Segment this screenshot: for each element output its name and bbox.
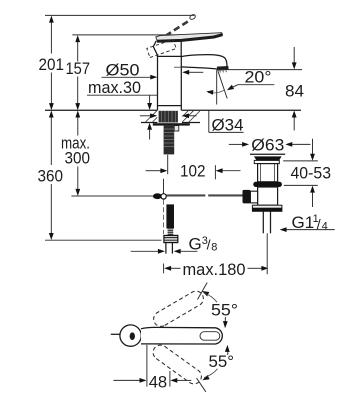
svg-text:G1: G1 [292, 213, 315, 232]
seal ring [253, 182, 282, 187]
stabiliser tab [174, 126, 179, 131]
raised lever (dashed) [166, 14, 197, 36]
360 bottom reference line [45, 239, 162, 241]
svg-text:55°: 55° [211, 301, 238, 320]
deck (counter) top line [45, 109, 157, 111]
pop-up horizontal rod (thin left = max300 ref) [71, 195, 152, 197]
55 lower arc arrow [201, 375, 209, 382]
lever inner end detail [200, 332, 220, 341]
dimension max.30 [87, 94, 157, 96]
svg-text:4: 4 [322, 220, 328, 232]
rod joint [161, 194, 166, 199]
deck bottom line [141, 122, 157, 124]
water stream vertical reference [216, 70, 218, 104]
rod knob [153, 193, 162, 199]
svg-text:max.180: max.180 [183, 260, 246, 279]
Ø34 leader [208, 110, 210, 132]
drain body lower [258, 187, 278, 205]
svg-text:48: 48 [149, 372, 168, 391]
svg-text:300: 300 [65, 149, 91, 168]
dimension 360 stem [50, 117, 52, 165]
top view: handle cap circle [120, 325, 141, 346]
handle neck [153, 41, 157, 57]
55 lower tip arrow [227, 351, 229, 356]
svg-text:8: 8 [211, 242, 217, 254]
dashed lever rotated down 55 [153, 345, 201, 384]
G3/8 stub [165, 243, 167, 254]
tailpipe [262, 211, 264, 233]
55 lower extension line [197, 378, 206, 392]
deck hatching [146, 111, 200, 122]
svg-text:157: 157 [66, 59, 91, 78]
dimension max.300 stem [77, 117, 79, 136]
svg-text:G: G [189, 235, 202, 254]
flange collar [254, 160, 279, 163]
G3/8 arrows [131, 250, 159, 252]
reference line top (201 extent) [45, 14, 194, 16]
lever (solid, lowered) [156, 33, 223, 42]
dimension 48 [146, 345, 148, 387]
pull rod [166, 204, 174, 228]
dimension 84 [217, 69, 302, 71]
55 upper arc arrow [201, 289, 209, 296]
svg-text:Ø50: Ø50 [106, 61, 140, 80]
55 upper extension line [198, 283, 208, 300]
dashed lever rotated up 55 [154, 291, 204, 326]
pop-up rod vertical [163, 179, 165, 194]
G3/8 nut [164, 235, 178, 242]
water stream 20 deg line [218, 71, 227, 98]
svg-text:Ø63: Ø63 [251, 136, 284, 155]
threaded shank below deck [164, 126, 175, 155]
G1 1/4 leader [280, 227, 287, 232]
svg-text:102: 102 [180, 162, 206, 181]
top view: handle stub line [111, 333, 120, 335]
aerator [217, 66, 229, 71]
reference line lever top (157 extent) [72, 34, 196, 36]
drain nut [252, 205, 282, 211]
svg-text:Ø34: Ø34 [212, 116, 244, 135]
20 deg arc arrow [208, 90, 224, 93]
body [157, 57, 159, 111]
ball joint boss [250, 191, 257, 203]
svg-text:20°: 20° [245, 68, 272, 87]
ball joint cap [243, 190, 251, 204]
top view: lever [141, 327, 222, 344]
55 upper tip arrow [224, 317, 226, 323]
svg-text:55°: 55° [209, 352, 235, 371]
svg-text:360: 360 [38, 167, 64, 186]
drain centreline extension [266, 233, 268, 274]
svg-text:/: / [207, 237, 211, 253]
20 deg leader [237, 84, 274, 86]
drain body upper [258, 164, 278, 182]
washer plate under deck [153, 123, 190, 125]
cartridge (dashed) [147, 40, 176, 58]
drain: Ø63 arrows [229, 143, 243, 145]
svg-text:40-53: 40-53 [291, 164, 332, 183]
dimension 201 stem [50, 22, 52, 54]
dimension Ø50 [102, 76, 152, 78]
horizontal rod to drain [166, 194, 205, 196]
centreline below joint [162, 200, 164, 234]
indicator dot [130, 332, 135, 340]
dimension max.180 [163, 264, 165, 274]
dimension 40-53 [283, 160, 318, 162]
threaded shank in deck hole [159, 111, 178, 123]
dimension 157 stem [77, 41, 79, 62]
svg-text:84: 84 [285, 82, 304, 101]
spout [181, 55, 227, 67]
pull rod thread [168, 229, 174, 236]
svg-text:201: 201 [39, 55, 65, 74]
drain flange [250, 153, 285, 155]
dimension Ø34 arrows [140, 115, 151, 117]
dimension 102 [167, 155, 169, 174]
svg-text:max.30: max.30 [88, 78, 141, 97]
svg-text:/: / [317, 216, 321, 232]
